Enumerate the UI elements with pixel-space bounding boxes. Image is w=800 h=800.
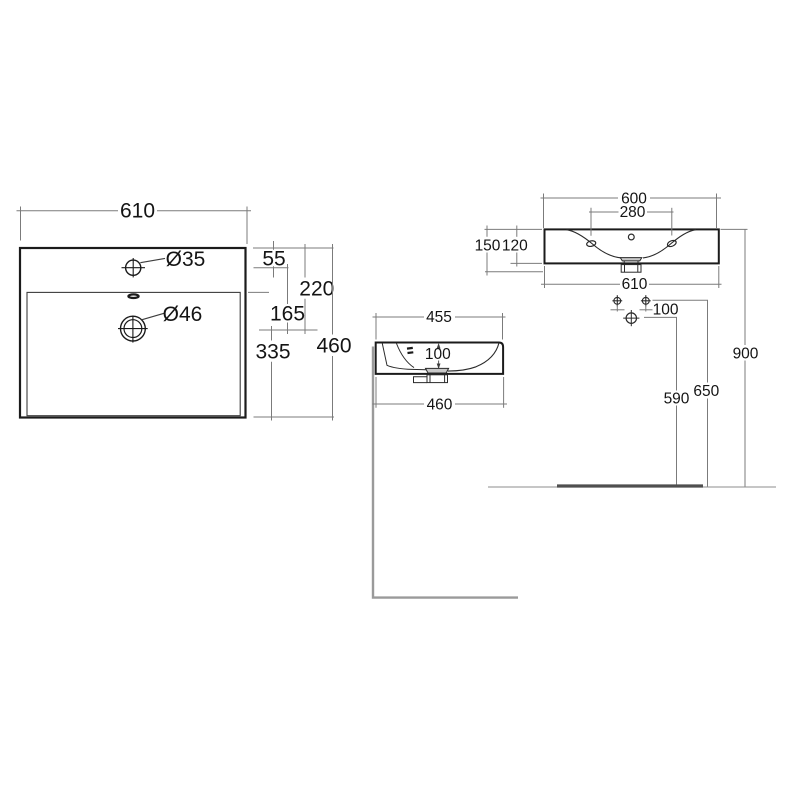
extension line top edge (plan right) [253,247,334,249]
front right fixing recess oval [667,239,678,247]
plan inner basin rectangle [27,292,240,415]
faucet hole Ø35 (plan) [122,258,146,277]
dimension 455 (side top width) [373,313,506,340]
dimension 120 (front depth to bowl bottom) [511,226,543,267]
drain hole Ø46 (plan) [118,316,148,343]
dimension 590 (drain above floor) [676,317,678,487]
svg-text:120: 120 [502,238,528,255]
front drain flange [620,258,642,261]
front bowl curve right [643,230,696,258]
floor line (front view) [488,486,776,488]
side overflow detail [407,348,413,353]
svg-text:100: 100 [653,301,679,318]
dimension 165 (faucet to drain) [287,264,289,334]
svg-text:610: 610 [622,276,648,293]
svg-text:335: 335 [255,341,290,364]
dimension 220 (top edge to drain) [304,244,306,334]
svg-text:Ø46: Ø46 [163,303,203,326]
front outer rectangle [545,229,719,263]
svg-text:Ø35: Ø35 [166,248,206,271]
svg-text:455: 455 [426,309,452,326]
svg-text:55: 55 [262,247,285,270]
svg-text:165: 165 [270,302,305,325]
dimension 610 (front bottom width) [541,266,722,288]
side bowl front curve [448,343,499,371]
side outer profile [376,343,503,374]
dimension 150 (front total height) [485,226,544,276]
floor shadow bar [557,484,703,487]
dimension 55 (top edge to faucet) [273,241,275,278]
extension line basin top to 900 [721,228,748,230]
extension line bottom edge (plan right) [254,416,335,418]
arrowhead up [437,343,441,349]
side drain flange [426,368,449,373]
extension line drain centre (plan right) [259,329,318,331]
svg-text:900: 900 [733,345,759,362]
side trap below basin [414,375,448,383]
side bowl back wall inner line [397,344,415,368]
dimension 460 (side bottom depth) [373,377,508,408]
svg-text:220: 220 [299,277,334,300]
svg-text:650: 650 [693,383,719,400]
front faucet hole [628,234,634,240]
svg-text:460: 460 [427,396,453,413]
front left fixing recess oval [586,240,596,247]
dimension 100 (bowl depth, arrows) [438,345,440,369]
wall line (side view) [373,347,518,598]
extension line faucet centre (plan right) [254,267,289,269]
leader line Ø35 [140,258,165,262]
overflow slot (plan) [128,294,138,298]
dimension 900 (rim height above floor) [744,229,746,487]
dimension 460 (plan depth) [332,244,334,421]
svg-text:100: 100 [425,346,451,363]
dimension 610 (plan width) [17,207,252,245]
extension line inner rim top (plan right) [248,291,269,293]
front drain neck [624,261,638,263]
arrowhead down [437,364,441,370]
right fixing hole crosshair [641,295,651,306]
extension line fixing-hole level to 650 [653,299,709,301]
side bowl back wall [382,344,426,370]
svg-text:460: 460 [316,334,351,357]
svg-text:280: 280 [620,204,646,221]
dimension 100 (fixing hole spacing) [611,305,653,312]
dimension 600 (front top) [541,194,722,229]
front bowl curve left [567,230,622,258]
wall drain hole crosshair [623,310,639,326]
left fixing hole crosshair [612,295,622,306]
dimension 650 (fixing holes above floor) [707,300,709,487]
svg-text:610: 610 [120,200,155,223]
front trap below basin [621,265,641,273]
svg-text:590: 590 [664,390,690,407]
dimension 280 (between recess ovals) [589,208,674,236]
svg-text:150: 150 [475,238,501,255]
leader line Ø46 [142,313,164,320]
plan outer rim rectangle [20,248,246,418]
extension line drain level to 590 [644,316,677,318]
dimension 335 (drain to bottom edge) [271,326,273,421]
